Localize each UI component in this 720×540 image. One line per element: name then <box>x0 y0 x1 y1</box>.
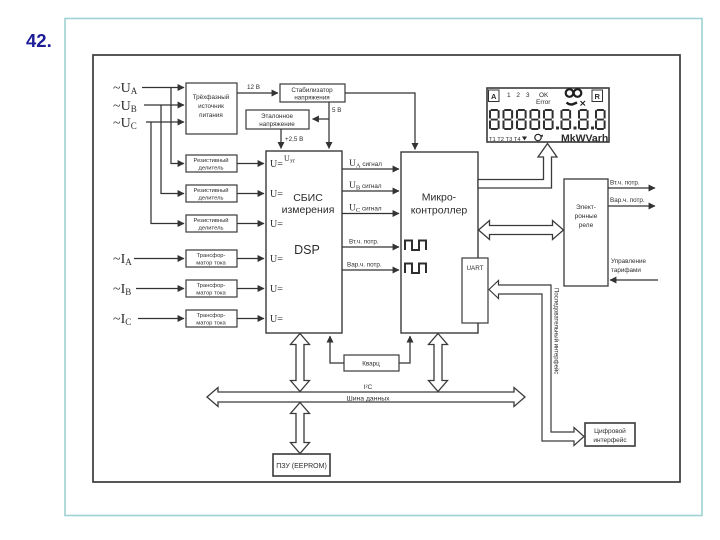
block resistive divider 2 <box>186 185 237 202</box>
wire IB to transformer 2 <box>136 288 184 290</box>
block arrow data bus to EEPROM (bidirectional) <box>291 403 310 454</box>
svg-text:Микро-: Микро- <box>422 192 457 204</box>
svg-text:U=: U= <box>270 314 283 325</box>
wire UA branch to divider 1 <box>171 88 184 164</box>
svg-text:делитель: делитель <box>198 166 223 172</box>
wire quartz to microcontroller <box>399 336 410 363</box>
svg-text:Шина данных: Шина данных <box>347 396 391 403</box>
diagram border <box>93 55 680 482</box>
wire IA to transformer 1 <box>134 258 184 260</box>
svg-text:~UC: ~UC <box>113 116 137 131</box>
block arrow UART to digital interface (serial) <box>489 281 584 446</box>
wire UA signal <box>342 159 399 170</box>
svg-text:источник: источник <box>198 103 224 110</box>
block voltage stabilizer <box>280 84 345 102</box>
wire UB signal <box>342 181 399 192</box>
svg-text:Резистивный: Резистивный <box>193 217 228 224</box>
svg-text:контроллер: контроллер <box>411 205 468 217</box>
svg-text:+2,5 В: +2,5 В <box>285 136 303 143</box>
svg-text:тарифами: тарифами <box>611 267 641 274</box>
wire UC branch to divider 3 <box>151 122 184 224</box>
wire IC to transformer 3 <box>138 318 184 320</box>
wire +2.5V reference to ADC chip <box>281 129 303 149</box>
svg-text:Стабилизатор: Стабилизатор <box>291 86 333 94</box>
wire transformer 2 to ADC <box>237 288 264 290</box>
block quartz crystal <box>344 355 399 371</box>
wire tariff control input <box>610 258 658 280</box>
svg-text:T1 T2 T3 T4: T1 T2 T3 T4 <box>489 137 521 143</box>
display key icon <box>566 89 585 105</box>
wire relay active energy output <box>608 180 655 189</box>
svg-text:~IB: ~IB <box>113 282 131 297</box>
svg-text:DSP: DSP <box>294 243 320 257</box>
svg-text:~IA: ~IA <box>113 252 132 267</box>
svg-text:Кварц: Кварц <box>362 361 380 368</box>
wire reactive energy pulse <box>342 262 399 271</box>
wire UC signal <box>342 204 399 215</box>
svg-text:Вар.ч. потр.: Вар.ч. потр. <box>347 262 382 269</box>
svg-text:Вар.ч. потр.: Вар.ч. потр. <box>610 197 645 204</box>
block arrow microcontroller to display <box>478 144 557 189</box>
block resistive divider 1 <box>186 155 237 172</box>
square wave symbol 2 <box>405 264 426 274</box>
svg-text:Элект-: Элект- <box>576 204 596 211</box>
svg-text:Вт.ч. потр.: Вт.ч. потр. <box>610 180 640 187</box>
svg-text:интерфейс: интерфейс <box>593 436 627 444</box>
display tariff row <box>489 133 608 145</box>
svg-text:A: A <box>491 92 497 101</box>
block EEPROM <box>273 454 330 476</box>
svg-text:напряжение: напряжение <box>259 121 295 128</box>
block current transformer 3 <box>186 310 237 327</box>
svg-text:ронные: ронные <box>575 213 598 220</box>
svg-text:Резистивный: Резистивный <box>193 187 228 194</box>
svg-text:матор тока: матор тока <box>196 321 226 327</box>
svg-text:ПЗУ (EEPROM): ПЗУ (EEPROM) <box>276 463 327 470</box>
block arrow DSP to data bus (bidirectional) <box>291 334 310 392</box>
svg-text:Трансфор-: Трансфор- <box>197 253 226 259</box>
svg-text:1 2 3: 1 2 3 <box>507 92 531 99</box>
block electronic relays <box>564 179 608 286</box>
wire relay reactive energy output <box>608 197 655 206</box>
svg-text:5 В: 5 В <box>332 107 341 114</box>
svg-text:реле: реле <box>579 222 594 229</box>
block arrow microcontroller to data bus (bidirectional) <box>429 334 448 392</box>
svg-text:U=: U= <box>270 254 283 265</box>
svg-text:Трёхфазный: Трёхфазный <box>193 93 230 101</box>
display seven segment digits <box>489 109 606 130</box>
block microcontroller <box>401 152 478 333</box>
svg-text:напряжения: напряжения <box>294 95 329 102</box>
wire active energy pulse <box>342 239 399 248</box>
data bus (bidirectional block arrow) <box>207 384 525 407</box>
svg-text:делитель: делитель <box>198 196 223 202</box>
wire UB to power source <box>144 104 184 106</box>
block arrow microcontroller to relays (bidirectional) <box>479 221 564 240</box>
wire 5V down from stabilizer <box>329 102 341 149</box>
wire quartz to DSP <box>330 336 344 363</box>
svg-text:UB сигнал: UB сигнал <box>349 181 382 192</box>
wire divider 3 to ADC <box>237 223 264 225</box>
svg-text:СБИС: СБИС <box>293 192 323 204</box>
wire 5V branch into reference voltage <box>313 118 330 120</box>
wire transformer 1 to ADC <box>237 258 264 260</box>
wire divider 1 to ADC <box>237 163 264 165</box>
svg-text:MkWVarh: MkWVarh <box>561 133 608 145</box>
svg-text:12 В: 12 В <box>247 84 260 91</box>
svg-text:42.: 42. <box>26 30 52 51</box>
svg-text:Резистивный: Резистивный <box>193 157 228 164</box>
block reference voltage <box>246 110 309 129</box>
svg-text:измерения: измерения <box>282 204 335 216</box>
svg-text:U=: U= <box>270 284 283 295</box>
svg-text:матор тока: матор тока <box>196 261 226 267</box>
svg-text:Последовательный интерфейс: Последовательный интерфейс <box>553 288 560 374</box>
svg-text:делитель: делитель <box>198 226 223 232</box>
svg-text:Цифровой: Цифровой <box>594 427 626 435</box>
svg-text:~UB: ~UB <box>113 99 137 114</box>
svg-text:Управление: Управление <box>611 258 647 265</box>
block resistive divider 3 <box>186 215 237 232</box>
wire UA to power source <box>142 87 184 89</box>
wire stabilizer to microcontroller top <box>345 93 415 150</box>
block measuring VLSI DSP <box>266 151 342 333</box>
svg-text:OK: OK <box>539 92 549 99</box>
svg-text:UC сигнал: UC сигнал <box>349 204 382 215</box>
svg-text:Error: Error <box>536 99 551 106</box>
block current transformer 1 <box>186 250 237 267</box>
wire divider 2 to ADC <box>237 193 264 195</box>
svg-text:Трансфор-: Трансфор- <box>197 283 226 289</box>
svg-text:Трансфор-: Трансфор- <box>197 313 226 319</box>
svg-text:U=: U= <box>270 189 283 200</box>
svg-text:UART: UART <box>466 265 483 272</box>
svg-text:Вт.ч. потр.: Вт.ч. потр. <box>349 239 379 246</box>
square wave symbol 1 <box>405 241 426 251</box>
svg-text:~UA: ~UA <box>113 81 138 96</box>
wire power source to stabilizer, label 12 V <box>237 84 278 93</box>
wire transformer 3 to ADC <box>237 318 264 320</box>
wire UC to power source <box>146 121 184 123</box>
svg-text:U=: U= <box>270 159 283 170</box>
svg-text:Эталонное: Эталонное <box>261 113 294 120</box>
block current transformer 2 <box>186 280 237 297</box>
block UART <box>462 258 488 323</box>
svg-text:R: R <box>594 92 600 101</box>
svg-text:I²C: I²C <box>364 384 373 391</box>
wire UB branch to divider 2 <box>161 105 184 194</box>
svg-text:U=: U= <box>270 219 283 230</box>
block digital interface <box>585 423 635 446</box>
LCD display module <box>487 88 609 142</box>
svg-text:UA сигнал: UA сигнал <box>349 159 382 170</box>
svg-text:матор тока: матор тока <box>196 291 226 297</box>
block three-phase power source <box>186 83 237 134</box>
svg-text:~IC: ~IC <box>113 312 131 327</box>
svg-text:питания: питания <box>199 112 223 119</box>
